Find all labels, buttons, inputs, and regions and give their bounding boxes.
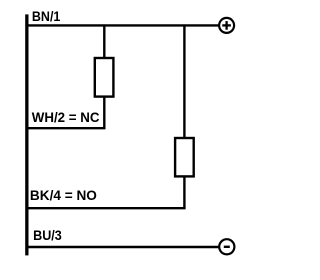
svg-text:WH/2 = NC: WH/2 = NC <box>32 109 100 125</box>
svg-text:BN/1: BN/1 <box>32 8 61 24</box>
svg-text:BK/4 = NO: BK/4 = NO <box>30 187 97 203</box>
svg-text:BU/3: BU/3 <box>33 227 62 243</box>
